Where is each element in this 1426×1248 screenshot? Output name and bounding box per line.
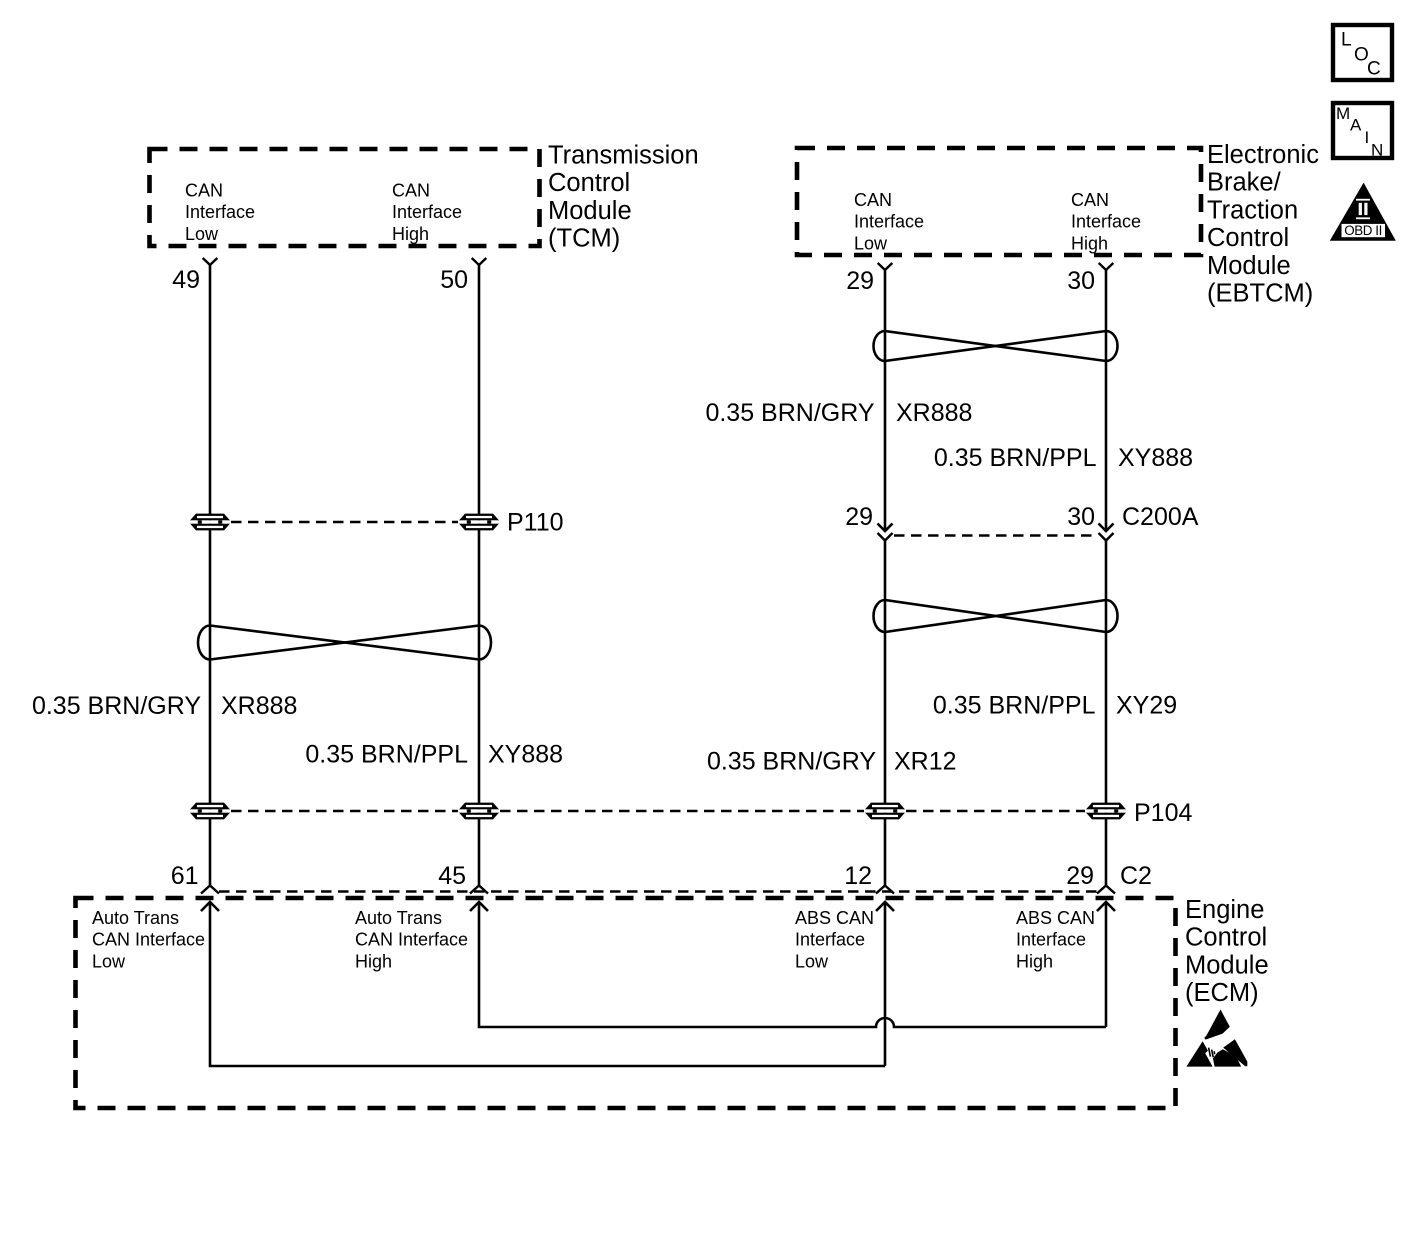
svg-text:Interface: Interface <box>1016 930 1086 950</box>
svg-text:29: 29 <box>845 503 873 531</box>
svg-text:P110: P110 <box>507 509 564 537</box>
label EBTCM CAN Interface Low <box>854 190 924 253</box>
svg-text:CAN: CAN <box>392 181 430 201</box>
svg-text:0.35 BRN/GRY: 0.35 BRN/GRY <box>707 748 876 776</box>
svg-text:0.35 BRN/PPL: 0.35 BRN/PPL <box>933 692 1096 720</box>
connector P110 grommet on wire 49 <box>190 514 230 531</box>
svg-text:High: High <box>1071 233 1108 253</box>
title ECM <box>1185 896 1269 1007</box>
svg-text:M: M <box>1336 104 1350 123</box>
svg-text:XY888: XY888 <box>1118 444 1193 472</box>
connector C2 chevron pin 45 <box>470 886 488 894</box>
svg-text:Electronic: Electronic <box>1207 141 1319 169</box>
wire EBTCM pin 30 vertical upper (CAN High XY888) <box>1105 270 1108 531</box>
terminal TCM pin 49 <box>203 258 218 265</box>
terminal TCM pin 50 <box>472 258 487 265</box>
svg-text:XY29: XY29 <box>1116 692 1177 720</box>
svg-text:Module: Module <box>1207 252 1291 280</box>
ECM arrow pin 61 <box>201 902 219 911</box>
svg-text:30: 30 <box>1067 267 1095 295</box>
connector P104 dashed line <box>231 810 458 812</box>
connector C2 chevron pin 29 <box>1097 886 1115 894</box>
svg-text:Control: Control <box>548 169 630 197</box>
module box EBTCM (Electronic Brake/Traction Control Module) <box>797 148 1201 255</box>
connector C200A arrow pin 30 <box>1099 524 1114 532</box>
connector C200A chevron pin 29 <box>878 533 893 541</box>
svg-text:High: High <box>1016 951 1053 971</box>
icon ESD warning triangle <box>1186 1010 1247 1067</box>
label ECM ABS CAN Interface Low <box>795 908 874 971</box>
wire TCM pin 50 vertical (CAN High, x=479) <box>478 265 481 886</box>
svg-text:0.35 BRN/GRY: 0.35 BRN/GRY <box>32 692 201 720</box>
svg-text:CAN Interface: CAN Interface <box>355 930 468 950</box>
svg-text:C200A: C200A <box>1122 503 1199 531</box>
svg-text:Brake/: Brake/ <box>1207 169 1282 197</box>
svg-text:I: I <box>1365 128 1370 147</box>
label TCM CAN Interface Low <box>185 181 255 244</box>
connector P104 grommet on wire XY888 <box>459 803 499 820</box>
svg-text:12: 12 <box>844 862 872 890</box>
title TCM <box>548 142 699 253</box>
svg-text:Transmission: Transmission <box>548 142 699 170</box>
svg-text:(ECM): (ECM) <box>1185 979 1259 1007</box>
svg-text:C: C <box>1367 59 1381 80</box>
terminal EBTCM pin 30 <box>1099 263 1114 270</box>
icon OBD II triangle <box>1330 183 1396 241</box>
svg-text:N: N <box>1371 141 1383 160</box>
connector P104 grommet on wire XR888 <box>190 803 230 820</box>
connector P104 grommet on wire XR12 <box>865 803 905 820</box>
svg-text:High: High <box>392 224 429 244</box>
svg-text:Module: Module <box>548 197 632 225</box>
svg-text:Low: Low <box>795 951 829 971</box>
ECM arrow pin 29 <box>1097 902 1115 911</box>
wire EBTCM pin 30 vertical lower (XY29) <box>1105 541 1108 887</box>
module box TCM (Transmission Control Module) <box>150 149 540 246</box>
icon LOC box <box>1333 25 1392 80</box>
svg-text:(EBTCM): (EBTCM) <box>1207 280 1313 308</box>
svg-text:Auto Trans: Auto Trans <box>92 908 179 928</box>
svg-text:High: High <box>355 951 392 971</box>
ECM arrow pin 45 <box>470 902 488 911</box>
connector P110 grommet on wire 50 <box>459 514 499 531</box>
label ECM Auto Trans CAN Interface High <box>355 908 468 971</box>
svg-text:Interface: Interface <box>392 202 462 222</box>
svg-text:Low: Low <box>854 233 888 253</box>
svg-text:Engine: Engine <box>1185 896 1264 924</box>
svg-text:ABS CAN: ABS CAN <box>795 908 874 928</box>
svg-text:Control: Control <box>1207 224 1289 252</box>
svg-text:0.35 BRN/PPL: 0.35 BRN/PPL <box>305 741 468 769</box>
svg-text:Interface: Interface <box>185 202 255 222</box>
terminal EBTCM pin 29 <box>878 263 893 270</box>
svg-text:XR888: XR888 <box>896 399 972 427</box>
connector C200A dashed line <box>894 534 1097 536</box>
wire ECM pin 29 internal vertical <box>1105 902 1108 1027</box>
connector P104 grommet on wire XY29 <box>1086 803 1126 820</box>
svg-text:ABS CAN: ABS CAN <box>1016 908 1095 928</box>
svg-text:30: 30 <box>1067 503 1095 531</box>
svg-text:Low: Low <box>185 224 219 244</box>
svg-text:50: 50 <box>440 266 468 294</box>
svg-text:Interface: Interface <box>795 930 865 950</box>
svg-text:0.35 BRN/GRY: 0.35 BRN/GRY <box>705 399 874 427</box>
svg-text:29: 29 <box>1066 862 1094 890</box>
svg-text:XR12: XR12 <box>894 748 957 776</box>
svg-text:CAN: CAN <box>1071 190 1109 210</box>
wire TCM pin 49 vertical (CAN Low, x=210) <box>209 265 212 886</box>
svg-text:C2: C2 <box>1120 862 1152 890</box>
svg-text:(TCM): (TCM) <box>548 225 620 253</box>
connector C2 chevron pin 61 <box>201 886 219 894</box>
twisted pair TCM XR888/XY888 <box>198 626 491 660</box>
svg-text:CAN: CAN <box>854 190 892 210</box>
wire ECM pin 61 internal run to pin 12 <box>210 902 885 1066</box>
svg-text:Auto Trans: Auto Trans <box>355 908 442 928</box>
icon MAIN box <box>1333 103 1392 160</box>
title EBTCM <box>1207 141 1319 308</box>
svg-text:XR888: XR888 <box>221 692 297 720</box>
svg-text:45: 45 <box>438 862 466 890</box>
svg-text:L: L <box>1341 30 1352 51</box>
label ECM ABS CAN Interface High <box>1016 908 1095 971</box>
svg-text:61: 61 <box>171 862 199 890</box>
module box ECM (Engine Control Module) <box>76 898 1176 1108</box>
wire EBTCM pin 29 vertical upper (CAN Low XR888) <box>884 270 887 531</box>
svg-text:Interface: Interface <box>1071 212 1141 232</box>
label EBTCM CAN Interface High <box>1071 190 1141 253</box>
twisted pair EBTCM lower XR12/XY29 <box>874 600 1118 632</box>
label ECM Auto Trans CAN Interface Low <box>92 908 205 971</box>
svg-text:Module: Module <box>1185 951 1269 979</box>
twisted pair EBTCM upper XR888/XY888 <box>874 331 1118 361</box>
svg-text:Low: Low <box>92 951 126 971</box>
svg-text:P104: P104 <box>1134 799 1192 827</box>
connector C2 dashed line <box>219 890 1097 892</box>
svg-text:29: 29 <box>846 267 874 295</box>
svg-text:CAN Interface: CAN Interface <box>92 930 205 950</box>
svg-text:OBD II: OBD II <box>1344 223 1382 238</box>
wire ECM pin 45 internal run to pin 29 with hop over pin-12 wire <box>479 902 1106 1027</box>
svg-text:A: A <box>1350 116 1362 135</box>
svg-text:0.35 BRN/PPL: 0.35 BRN/PPL <box>934 444 1097 472</box>
svg-text:Control: Control <box>1185 924 1267 952</box>
connector C200A chevron pin 30 <box>1099 533 1114 541</box>
wire EBTCM pin 29 vertical lower (XR12) <box>884 541 887 887</box>
svg-text:Interface: Interface <box>854 212 924 232</box>
ECM arrow pin 12 <box>876 902 894 911</box>
wire ECM pin 12 internal vertical <box>884 902 887 1066</box>
svg-text:49: 49 <box>172 266 200 294</box>
connector P110 dashed line <box>231 521 458 523</box>
svg-text:CAN: CAN <box>185 181 223 201</box>
label TCM CAN Interface High <box>392 181 462 244</box>
svg-text:XY888: XY888 <box>488 741 563 769</box>
svg-text:Traction: Traction <box>1207 196 1298 224</box>
connector C2 chevron pin 12 <box>876 886 894 894</box>
connector C200A arrow pin 29 <box>878 524 893 532</box>
